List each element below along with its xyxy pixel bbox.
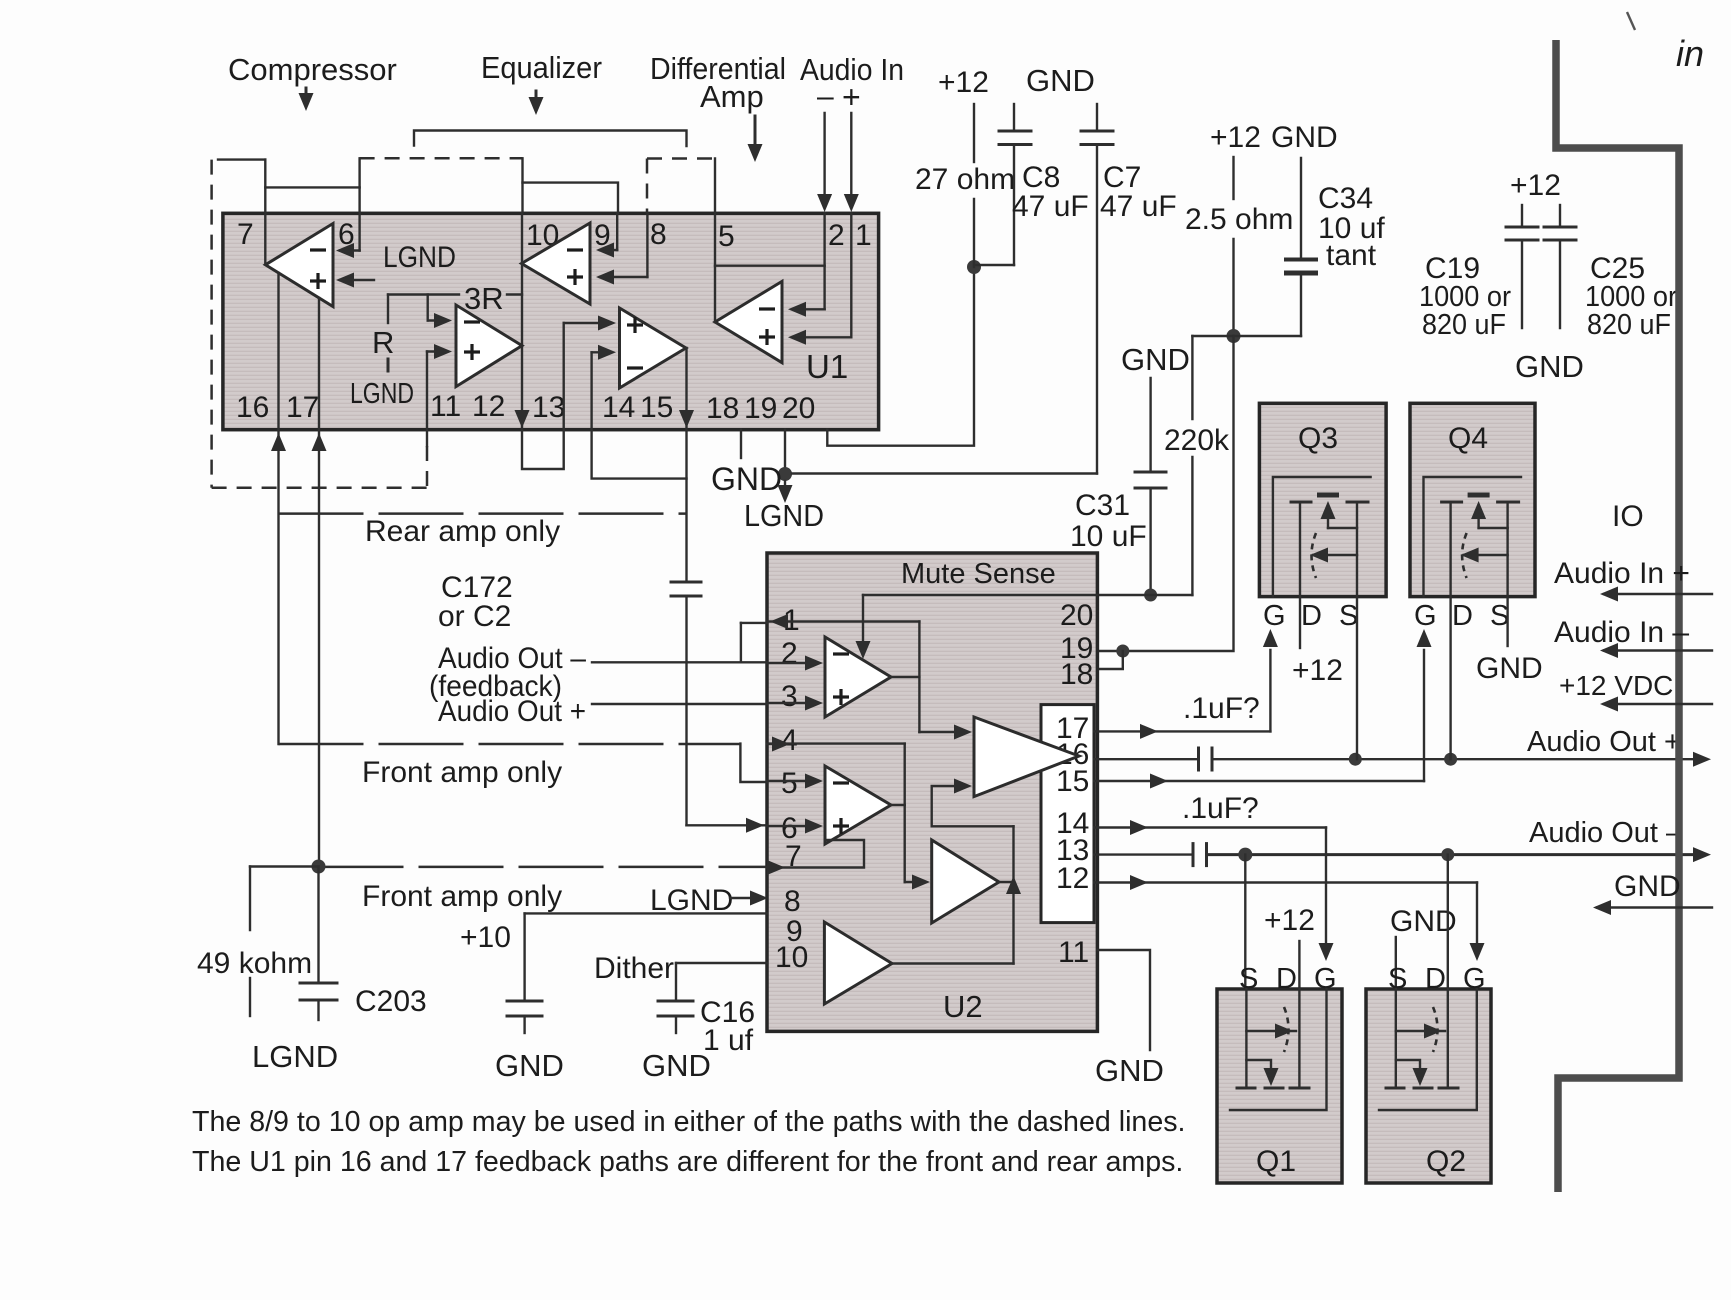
svg-text:220k: 220k <box>1164 424 1230 457</box>
wire Q1 drain to +12 <box>1264 904 1315 989</box>
svg-text:47 uF: 47 uF <box>1012 190 1089 223</box>
wire LGND to U2 pin 8 <box>650 884 768 917</box>
svg-text:.1uF?: .1uF? <box>1183 692 1260 725</box>
wire to U2.C upper input <box>919 725 972 740</box>
wire Audio Out - feedback into pin 2 <box>429 642 767 703</box>
svg-text:Q4: Q4 <box>1448 422 1488 455</box>
capacitor C7 47 uF <box>1081 104 1177 474</box>
svg-text:Equalizer: Equalizer <box>481 50 602 85</box>
capacitor +10 bypass to GND <box>495 1001 564 1083</box>
wire U2 pin 4 column to U2.D input <box>905 744 930 890</box>
wire U1 pin 14 to U1.D inverting input <box>592 345 616 430</box>
wire Rear amp only dashed path <box>279 514 687 548</box>
wire Front amp only dashed to pin 7 <box>319 867 768 913</box>
svg-text:Q3: Q3 <box>1298 422 1338 455</box>
wire U1 pin 13 to U1.D noninverting input <box>564 316 616 430</box>
wire U1 pin 14 link to pin 15 column <box>592 430 687 479</box>
svg-text:8: 8 <box>784 885 801 918</box>
wire pin10-pin9 loop <box>523 183 619 213</box>
wire U2.D output riser <box>999 826 1021 963</box>
svg-text:2.5 ohm: 2.5 ohm <box>1185 203 1293 236</box>
svg-text:LGND: LGND <box>252 1039 338 1074</box>
svg-text:+12: +12 <box>1510 169 1561 202</box>
dashed compressor option rectangle <box>212 160 427 488</box>
label Equalizer with arrow <box>481 50 602 115</box>
label Audio In - + <box>800 52 904 115</box>
transistor Q1 body <box>1217 989 1342 1183</box>
svg-text:U2: U2 <box>943 989 983 1024</box>
wire U2 pin 6 input <box>767 819 823 834</box>
wire U1 pin 17 feedback <box>318 298 320 430</box>
svg-text:G: G <box>1314 963 1337 995</box>
capacitor C203 <box>300 867 427 1021</box>
op-amp U2.C output driver <box>974 717 1079 797</box>
wire U1 pins 12-13 link <box>522 430 564 470</box>
svg-text:Front amp only: Front amp only <box>362 880 562 913</box>
svg-text:LGND: LGND <box>650 884 733 917</box>
svg-text:18: 18 <box>706 392 739 425</box>
svg-text:Rear amp only: Rear amp only <box>365 515 560 548</box>
svg-text:Compressor: Compressor <box>228 52 397 87</box>
wire Q2 source to GND <box>1390 905 1457 989</box>
capacitor C19 1000 or 820 uF <box>1419 169 1561 341</box>
svg-text:IO: IO <box>1612 500 1644 533</box>
svg-text:The U1 pin 16 and 17 feedback: The U1 pin 16 and 17 feedback paths are … <box>192 1146 1183 1178</box>
handwritten mark in <box>1627 12 1704 74</box>
op-amp U1.D summing <box>620 308 687 388</box>
label Differential Amp with arrow <box>650 51 786 162</box>
svg-text:13: 13 <box>532 391 565 424</box>
svg-text:Q1: Q1 <box>1256 1145 1296 1178</box>
wire Front amp only dashed to pin 4 <box>279 737 791 790</box>
op-amp U2.D <box>932 840 999 923</box>
wire U2 pin 7 feedback <box>767 840 864 875</box>
wire U2 pin 20 mute sense feedback <box>856 595 1098 659</box>
IC U2 body Mute Sense <box>767 553 1097 1031</box>
wire pin 10 riser <box>521 158 523 213</box>
op-amp U2.E dither buffer <box>824 922 892 1004</box>
svg-text:+12: +12 <box>938 66 989 99</box>
wire U1 pin 9 inverting input <box>596 213 617 258</box>
svg-text:G: G <box>1414 600 1437 632</box>
svg-text:47 uF: 47 uF <box>1100 190 1177 223</box>
wire IO Audio In - <box>1554 616 1712 658</box>
wire U2 pin 5 input <box>767 774 823 789</box>
ground LGND below 49 kohm and C203 <box>252 1039 338 1074</box>
wire U1 pin 16 feedback <box>277 273 279 430</box>
svg-text:GND: GND <box>1476 652 1543 685</box>
svg-text:GND: GND <box>1095 1053 1164 1088</box>
svg-text:+10: +10 <box>460 921 511 954</box>
svg-text:4: 4 <box>781 724 798 757</box>
wire U2 pin 18 jog <box>1097 651 1122 669</box>
transistor Q3 body <box>1259 403 1386 596</box>
wire U1 pin 7 output riser <box>264 160 266 264</box>
wire U2 pin 15 to Q4 gate with .1uF? <box>1094 629 1432 825</box>
capacitor .1uF on Audio Out - line <box>1094 844 1207 866</box>
transistor Q1 pin labels S D G <box>1239 963 1337 995</box>
svg-text:2: 2 <box>781 637 798 670</box>
note text line 2 <box>192 1146 1183 1178</box>
svg-text:+: + <box>842 79 861 115</box>
svg-text:12: 12 <box>472 390 505 423</box>
svg-text:LGND: LGND <box>350 378 414 410</box>
wire Q3 source to Audio Out + <box>1356 597 1358 760</box>
capacitor C172 or C2 <box>438 571 701 825</box>
wire U1 pin 16 arrow below box <box>271 430 286 744</box>
svg-text:3R: 3R <box>464 281 504 316</box>
svg-text:15: 15 <box>1056 765 1089 798</box>
svg-text:C34: C34 <box>1318 182 1373 215</box>
wire diff amp feedback <box>715 265 825 267</box>
transistor Q3 pin labels G D S <box>1263 600 1358 632</box>
wire pin7-pin6 feedback bridge <box>218 160 360 188</box>
svg-text:or C2: or C2 <box>438 600 511 633</box>
wire U2 pin 3 input <box>767 696 823 711</box>
svg-text:10 uF: 10 uF <box>1070 520 1147 553</box>
ground LGND arrow under GND node <box>744 481 824 533</box>
svg-text:D: D <box>1301 600 1322 632</box>
svg-text:tant: tant <box>1326 239 1377 272</box>
svg-text:GND: GND <box>642 1048 711 1083</box>
svg-text:5: 5 <box>718 220 735 253</box>
svg-text:19: 19 <box>744 392 777 425</box>
svg-text:The 8/9 to 10 op amp may be us: The 8/9 to 10 op amp may be used in eith… <box>192 1106 1185 1138</box>
svg-text:10: 10 <box>775 941 808 974</box>
transistor Q2 mosfet symbol <box>1379 989 1477 1110</box>
wire U2.C lower input loop <box>932 779 1014 827</box>
transistor Q4 body <box>1410 403 1535 596</box>
svg-text:+12: +12 <box>1210 121 1261 154</box>
svg-text:.1uF?: .1uF? <box>1182 792 1259 825</box>
wire dashed option path pin 8 <box>647 159 715 214</box>
svg-text:D: D <box>1452 600 1473 632</box>
node pin 17 feedback junction <box>312 860 326 874</box>
svg-text:GND: GND <box>495 1048 564 1083</box>
svg-text:5: 5 <box>781 767 798 800</box>
svg-text:1: 1 <box>855 219 872 252</box>
capacitor C8 47 uF <box>974 104 1089 265</box>
wire U2.B output to pin 4 column <box>891 804 905 806</box>
svg-text:S: S <box>1239 963 1258 995</box>
IC U1 body <box>223 213 879 429</box>
svg-text:2: 2 <box>828 219 845 252</box>
wire U2 pin 11 to GND <box>1095 950 1164 1088</box>
svg-text:D: D <box>1276 963 1297 995</box>
svg-text:17: 17 <box>286 391 319 424</box>
svg-text:G: G <box>1263 600 1286 632</box>
wire U2 pin 17 to Q3 gate with .1uF? <box>1094 629 1278 739</box>
wire pins 1-2 outer loop <box>741 623 767 662</box>
wire U1 pin 5 output <box>714 159 716 323</box>
svg-text:–: – <box>817 80 834 113</box>
wire Q4 source to GND <box>1476 597 1543 685</box>
op-amp U1.E differential amp <box>715 281 782 362</box>
wire U1 pin 18 stub <box>740 430 742 458</box>
svg-text:1 uf: 1 uf <box>703 1024 754 1057</box>
svg-text:Audio In –: Audio In – <box>1554 616 1689 649</box>
svg-text:49 kohm: 49 kohm <box>197 947 312 980</box>
node +12 C34 junction <box>1192 329 1301 343</box>
wire U2 pin 14 to Q1 gate <box>1094 820 1334 961</box>
wire U1 pin 2 inverting input <box>788 213 825 317</box>
capacitor .1uF on Audio Out + line <box>1094 748 1212 770</box>
svg-text:C31: C31 <box>1075 489 1130 522</box>
svg-text:Audio Out –: Audio Out – <box>1529 817 1683 849</box>
svg-text:D: D <box>1425 963 1446 995</box>
svg-text:11: 11 <box>1058 936 1089 969</box>
wire dashed option path pin6 to pin10 <box>360 157 523 160</box>
svg-text:15: 15 <box>640 391 673 424</box>
wire Audio Out + line <box>1212 726 1711 767</box>
wire Audio Out + into pin 3 <box>438 695 767 728</box>
wire Q4 drain to Audio Out + <box>1449 597 1451 760</box>
transistor Q3 mosfet symbol <box>1273 477 1371 597</box>
wire Audio Out - line <box>1207 817 1712 862</box>
resistor R to LGND <box>372 295 394 372</box>
op-amp U2.B <box>825 766 891 844</box>
svg-text:U1: U1 <box>806 348 848 385</box>
svg-text:GND: GND <box>711 461 782 497</box>
svg-text:S: S <box>1339 600 1358 632</box>
svg-text:12: 12 <box>1056 862 1089 895</box>
svg-text:+12 VDC: +12 VDC <box>1559 670 1673 701</box>
wire Q1 source to Audio Out - <box>1244 855 1246 989</box>
svg-text:18: 18 <box>1060 658 1093 691</box>
svg-text:16: 16 <box>236 391 269 424</box>
wire U2 pin 2 input <box>767 656 823 671</box>
wire U1.C noninverting input / pin 11 <box>427 344 452 488</box>
svg-text:8: 8 <box>650 218 667 251</box>
wire Audio In + to U1 pin 1 <box>844 113 859 212</box>
label Compressor with arrow <box>228 52 397 111</box>
equalizer bracket wire <box>414 131 687 147</box>
op-amp U1.C gain R/3R <box>456 305 522 387</box>
svg-text:in: in <box>1676 33 1704 74</box>
svg-text:27 ohm: 27 ohm <box>915 163 1015 196</box>
svg-text:820 uF: 820 uF <box>1587 309 1671 341</box>
svg-text:11: 11 <box>430 390 461 423</box>
svg-text:LGND: LGND <box>744 498 824 533</box>
svg-text:Audio Out +: Audio Out + <box>1527 726 1681 758</box>
wire U2 pin 12 to Q2 gate <box>1094 875 1485 961</box>
wire C172 to U2 pin 6 <box>687 818 768 833</box>
transistor Q4 pin labels G D S <box>1414 600 1509 632</box>
white pin block U2 pins 12-17 <box>1041 705 1094 923</box>
op-amp U1.A compressor <box>265 224 333 307</box>
wire U1 pin 6 inverting input <box>336 158 360 258</box>
svg-text:LGND: LGND <box>383 241 456 274</box>
wire U1 pin 15 column to C172 <box>685 430 687 583</box>
wire U1 pin 8 noninverting input <box>596 213 647 285</box>
svg-text:S: S <box>1388 963 1407 995</box>
transistor Q2 body <box>1366 989 1491 1183</box>
svg-text:GND: GND <box>1121 342 1190 377</box>
wire U1 pin 20 to +12 rail <box>827 267 974 446</box>
svg-text:Audio In +: Audio In + <box>1554 557 1690 590</box>
wire pins 4-5 outer loop <box>740 744 904 782</box>
resistor 27 ohm in +12 feed <box>915 66 1015 267</box>
capacitor C31 10 uF <box>1070 378 1166 602</box>
resistor 49 kohm to LGND <box>197 867 319 1017</box>
capacitor C16 1 uf to GND <box>642 996 755 1083</box>
svg-text:GND: GND <box>1271 121 1338 154</box>
svg-text:3: 3 <box>781 680 798 713</box>
svg-text:R: R <box>372 325 394 360</box>
capacitor C25 1000 or 820 uF <box>1544 205 1677 341</box>
svg-text:14: 14 <box>602 391 635 424</box>
node +12 C8 junction <box>967 260 981 274</box>
transistor Q2 pin labels S D G <box>1388 963 1486 995</box>
resistor 220k <box>1164 336 1230 595</box>
ground GND above C31 <box>1121 342 1190 377</box>
svg-text:20: 20 <box>782 392 815 425</box>
wire +10 rail to U2 pin 9 <box>460 913 767 1001</box>
svg-text:Front amp only: Front amp only <box>362 756 562 789</box>
resistor 2.5 ohm in +12 feed <box>1185 121 1338 336</box>
svg-text:Mute Sense: Mute Sense <box>901 558 1056 590</box>
wire U1.C inverting input <box>428 295 452 329</box>
op-amp U1.B equalizer <box>522 223 591 304</box>
svg-text:GND: GND <box>1026 63 1095 98</box>
note text line 1 <box>192 1106 1185 1138</box>
op-amp U2.A <box>825 637 891 717</box>
svg-text:Dither: Dither <box>594 952 674 985</box>
svg-text:20: 20 <box>1060 599 1093 632</box>
transistor Q1 mosfet symbol <box>1230 989 1327 1110</box>
svg-text:Amp: Amp <box>700 79 764 114</box>
svg-text:GND: GND <box>1614 870 1681 903</box>
wire U1 pin 1 noninverting input <box>788 213 851 345</box>
wire U1.D output pin 15 <box>679 348 694 430</box>
wire U1 pin 10 / pin 12 output column <box>515 213 530 430</box>
wire U2.E output <box>892 962 1014 964</box>
wire U1.A noninverting input stub to LGND <box>336 273 374 288</box>
wire Dither to U2 pin 10 <box>594 952 767 1001</box>
wire Audio In - to U1 pin 2 <box>817 113 832 212</box>
wire U2.A output <box>891 676 919 678</box>
capacitor C34 10 uf tant <box>1284 158 1385 336</box>
svg-text:C203: C203 <box>355 985 427 1018</box>
ground GND label above C8 C7 <box>1026 63 1095 98</box>
wire Q2 drain to Audio Out - <box>1447 855 1449 989</box>
wire U2 pin 1 feedback <box>767 614 919 732</box>
IO board edge <box>1556 40 1679 1192</box>
wire U1 pin 17 arrow below box <box>312 430 327 867</box>
svg-text:G: G <box>1463 963 1486 995</box>
wire U2 pin 20 to 220k <box>1097 594 1192 596</box>
svg-text:Q2: Q2 <box>1426 1145 1466 1178</box>
svg-text:7: 7 <box>237 218 254 251</box>
svg-text:820 uF: 820 uF <box>1422 309 1506 341</box>
wire Q3 drain to +12 <box>1292 597 1343 687</box>
wire IO Audio In + <box>1554 557 1712 602</box>
svg-text:GND: GND <box>1515 349 1584 384</box>
svg-text:+12: +12 <box>1292 654 1343 687</box>
svg-text:+12: +12 <box>1264 904 1315 937</box>
resistor 3R feedback <box>388 281 522 316</box>
transistor Q4 mosfet symbol <box>1424 477 1522 597</box>
wire GND bus to C7 <box>792 472 1097 474</box>
wire +12 to U2 pin 19 <box>1097 336 1233 658</box>
node GND at U1 pin 19 <box>711 430 792 497</box>
ground GND below C19 C25 <box>1515 349 1584 384</box>
wire IO GND <box>1593 870 1712 915</box>
svg-text:Audio Out +: Audio Out + <box>438 695 586 728</box>
wire IO +12 VDC <box>1559 670 1712 712</box>
